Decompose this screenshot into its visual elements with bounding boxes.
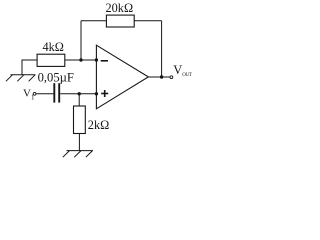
terminal Vout (170, 76, 173, 79)
op-amp inverting pin mark - (101, 60, 108, 62)
node C (output junction) (160, 75, 163, 78)
svg-text:0,05µF: 0,05µF (38, 71, 74, 85)
ground GND1 (left) (6, 75, 35, 82)
node A (feedback tap junction) (79, 58, 82, 61)
wire op-amp output (148, 76, 170, 78)
wire R1 to inverting input (65, 59, 97, 61)
svg-text:VOUT: VOUT (173, 63, 192, 78)
wire R3 to ground (78, 134, 80, 151)
node B (R3 tap junction) (78, 92, 81, 95)
capacitor C1 (54, 83, 59, 102)
resistor R2 value label 20kΩ (106, 1, 134, 15)
wire R1 to ground (22, 60, 37, 75)
resistor R1 (input) (37, 54, 65, 66)
wire feedback right vertical (161, 21, 163, 77)
svg-text:20kΩ: 20kΩ (106, 1, 134, 15)
svg-text:2kΩ: 2kΩ (88, 118, 109, 132)
node at inverting input pin (95, 58, 98, 61)
wire V1 to capacitor (36, 93, 53, 95)
wire node B down to R3 (78, 94, 80, 106)
source V1 label (23, 87, 35, 101)
capacitor C1 value label 0,05µF (38, 71, 74, 85)
resistor R3 value label 2kΩ (88, 118, 109, 132)
ground GND2 (bottom) (63, 151, 93, 158)
svg-text:4kΩ: 4kΩ (43, 40, 64, 54)
terminal V1 (33, 92, 36, 95)
wire feedback left vertical (80, 21, 82, 60)
resistor R1 value label 4kΩ (43, 40, 64, 54)
resistor R3 (74, 106, 86, 134)
label VOUT (173, 63, 192, 78)
resistor R2 (feedback) (106, 15, 134, 27)
node at non-inverting input pin (95, 92, 98, 95)
wire capacitor to non-inverting input (60, 93, 96, 95)
wire feedback right horizontal (134, 20, 161, 22)
op-amp non-inverting pin mark + (101, 90, 108, 97)
wire feedback left horizontal (81, 20, 106, 22)
op-amp U1 (96, 45, 148, 109)
